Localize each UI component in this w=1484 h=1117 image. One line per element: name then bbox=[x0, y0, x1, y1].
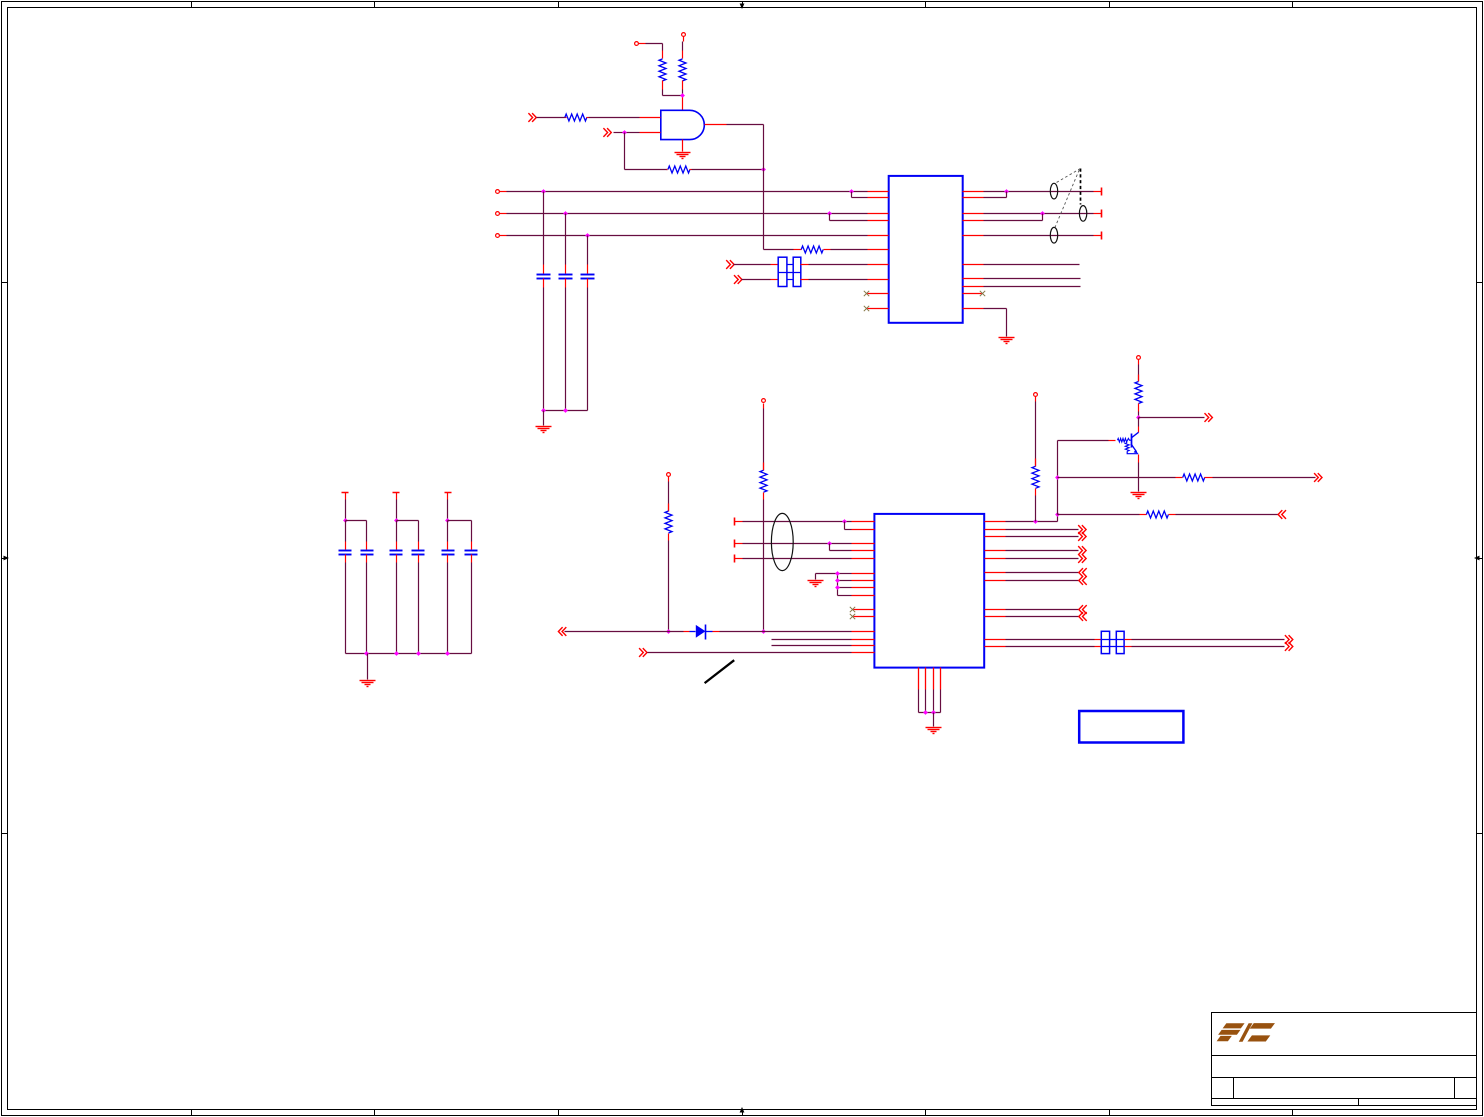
junction R1/R2 bbox=[680, 93, 685, 98]
wire 514 right bbox=[1176, 514, 1279, 516]
cap bank bus bbox=[346, 653, 472, 655]
wire JP2 right a bbox=[1125, 639, 1285, 641]
ground cap bank bbox=[360, 681, 376, 687]
U2 left pin y191.1 bbox=[868, 191, 889, 193]
wire output to R5 bbox=[764, 249, 794, 251]
wire U3 net1 bbox=[743, 521, 852, 523]
U2 left pin y197.8 bbox=[868, 197, 889, 199]
U3 bottom bus bbox=[919, 690, 941, 713]
junction net1 branch bbox=[849, 189, 854, 194]
wire U3r in y572.6 bbox=[1006, 572, 1079, 574]
wire 514 line bbox=[1058, 514, 1140, 516]
wire U3r out y529.0 bbox=[1006, 529, 1079, 531]
U2 left pin y235.2 bbox=[868, 235, 889, 237]
U3 right pin y572.6 bbox=[985, 572, 1006, 574]
wire sw net3 bbox=[984, 235, 1094, 237]
wire R3 to U1 input 1 bbox=[589, 117, 640, 119]
U3 left pin y652.8 bbox=[852, 652, 875, 654]
port circle Q1 top bbox=[1137, 356, 1141, 365]
U2 right pin y264.1 bbox=[963, 264, 984, 266]
wire input A bbox=[537, 117, 565, 119]
off-page arrow in y580.1 bbox=[1079, 576, 1087, 585]
transistor Q1 bbox=[1109, 427, 1139, 463]
switch ellipse 2 bbox=[1079, 206, 1086, 222]
off-page arrow in y616.7 bbox=[1079, 612, 1087, 621]
wire U2r free B bbox=[984, 278, 1081, 280]
wire C8 down bbox=[447, 563, 449, 654]
junction net3 cap drop bbox=[585, 233, 590, 238]
U2 left pin y279.0 bbox=[868, 279, 889, 281]
off-page arrow 477 bbox=[1314, 473, 1322, 482]
wire diode line right bbox=[720, 631, 852, 633]
off-page arrow out y529.0 bbox=[1078, 525, 1086, 534]
capacitor C4 bbox=[339, 542, 352, 563]
off-page arrow out y558.0 bbox=[1078, 554, 1086, 563]
wire to JP1 pin2 bbox=[742, 279, 779, 281]
U3 right pin y646.0 bbox=[985, 646, 1006, 648]
U2 left NC pin 10 bbox=[864, 306, 889, 311]
port circle J1 bbox=[635, 42, 646, 46]
wire stub A bbox=[772, 639, 852, 641]
U3 left NC pin b bbox=[850, 614, 875, 619]
switch ellipse 3 bbox=[1050, 227, 1057, 243]
junction gnd bus 2 bbox=[835, 578, 840, 583]
U1 output pin bbox=[705, 124, 727, 126]
U1 GND pin bbox=[682, 140, 684, 152]
U2 left NC pin 9 bbox=[864, 291, 889, 296]
U2 right pin y278.7 bbox=[963, 278, 984, 280]
resistor R3 bbox=[565, 114, 589, 121]
junction bank 4 bbox=[445, 651, 450, 656]
U3 right pin y616.7 bbox=[985, 616, 1006, 618]
U3 bottom pin x933.0 bbox=[933, 668, 935, 690]
wire bus to ground bbox=[543, 411, 545, 426]
off-page arrow net654 bbox=[639, 648, 647, 657]
wire U3r out y536.2 bbox=[1006, 536, 1079, 538]
wire input B bbox=[614, 132, 640, 134]
wire Q1 collector net upper bbox=[1138, 365, 1140, 382]
port circle V3 bbox=[1034, 393, 1038, 402]
off-page arrow collector bbox=[1205, 413, 1213, 422]
power port / wires cap group 2 bbox=[393, 493, 419, 542]
U3 right pin y609.1 bbox=[985, 609, 1006, 611]
wire emitter to ground bbox=[1138, 463, 1140, 492]
resistor R11 bbox=[1135, 375, 1142, 412]
off-page arrow out y536.2 bbox=[1078, 532, 1086, 541]
port circle J2 bbox=[682, 33, 686, 42]
note box bbox=[1079, 711, 1183, 743]
U3 right pin y639.3 bbox=[985, 639, 1006, 641]
wire J1 to R1 bbox=[646, 44, 663, 51]
U3 bottom pin x940.2 bbox=[940, 668, 942, 690]
port circle W3 bbox=[496, 234, 507, 238]
wire R4 to output node bbox=[692, 169, 764, 171]
resistor R1 bbox=[659, 51, 666, 90]
diode D1 bbox=[684, 625, 720, 640]
junction net2 cap drop bbox=[563, 211, 568, 216]
wire U3r in y616.7 bbox=[1006, 616, 1079, 618]
junction sw1 bbox=[1004, 189, 1009, 194]
port circle W2 bbox=[496, 212, 507, 216]
capacitor C5 bbox=[361, 542, 374, 563]
wire R1 bottom to junction bbox=[663, 90, 683, 96]
wire V3 lower bbox=[1035, 496, 1037, 522]
U3 left pin y550.4 bbox=[852, 550, 875, 552]
wire V2 upper bbox=[763, 409, 765, 471]
wire U2r gnd bbox=[984, 309, 1007, 337]
resistor R2 bbox=[679, 51, 686, 90]
wire cap drop 3 bbox=[587, 236, 589, 265]
wire net1 bbox=[507, 191, 868, 193]
wire pin2 up bbox=[984, 192, 1007, 198]
wire C5 down bbox=[366, 563, 368, 654]
wire cap drop 2 bbox=[565, 214, 567, 265]
ground U3 bottom bbox=[926, 728, 942, 734]
U2 left pin y249.4 bbox=[868, 249, 889, 251]
off-page arrow out y550.1 bbox=[1078, 546, 1086, 555]
jumper block JP2 bbox=[1101, 631, 1124, 653]
ground bus wires bbox=[816, 574, 852, 596]
U3 left pin y631.3 bbox=[852, 631, 875, 633]
off-page arrow JP1 a bbox=[726, 260, 734, 269]
wire U1 output down bbox=[727, 125, 764, 250]
off-page arrow in y572.6 bbox=[1079, 568, 1087, 577]
junction base net low bbox=[1055, 475, 1060, 480]
capacitor C6 bbox=[390, 542, 403, 563]
wire U3 to JP2 b bbox=[1006, 646, 1102, 648]
wire C3 to gnd bus bbox=[587, 288, 589, 411]
wire sw net1 bbox=[984, 191, 1094, 193]
wire base vertical bbox=[1058, 441, 1109, 515]
U2 right pin y308.0 bbox=[963, 308, 984, 310]
junction R8 bottom bbox=[1033, 519, 1038, 524]
wire net2 bbox=[507, 213, 868, 215]
wire V3 upper bbox=[1035, 402, 1037, 467]
wire net654 bbox=[648, 652, 852, 654]
switch ellipse 1 bbox=[1050, 183, 1057, 199]
off-page arrow input A bbox=[528, 113, 536, 122]
ground cap bus bbox=[536, 427, 552, 433]
wire J2 to R2 bbox=[682, 42, 684, 51]
off-page arrow JP2 a bbox=[1285, 635, 1293, 644]
junction U3 net1 bbox=[842, 519, 847, 524]
U3 left pin y521.0 bbox=[852, 521, 875, 523]
wire C4 down bbox=[345, 563, 347, 654]
power port / wires cap group 3 bbox=[445, 493, 472, 542]
junction bus 2 bbox=[563, 408, 568, 413]
wire V1 upper bbox=[668, 482, 670, 512]
wire net1 branch to pin2 bbox=[852, 192, 868, 198]
resistor R5 bbox=[794, 246, 831, 253]
U3 left pin y543.4 bbox=[852, 543, 875, 545]
junction collector net bbox=[1136, 415, 1141, 420]
junction bottom 1 bbox=[923, 710, 928, 715]
wire R2 to gate VCC bbox=[682, 90, 684, 98]
wire bottom gnd stem bbox=[933, 713, 935, 727]
off-page arrow JP2 b bbox=[1285, 642, 1293, 651]
U3 left pin y595.2 bbox=[852, 595, 875, 597]
wire to JP1 pin1 bbox=[734, 264, 779, 266]
U3 left pin y580.3 bbox=[852, 580, 875, 582]
U3 right pin y558.0 bbox=[985, 558, 1006, 560]
U3 left pin y639.2 bbox=[852, 639, 875, 641]
junction base net mid bbox=[1055, 512, 1060, 517]
wire feedback down bbox=[625, 133, 668, 170]
wire net3 bbox=[507, 235, 868, 237]
U2 right NC pin bbox=[963, 291, 986, 296]
capacitor C7 bbox=[412, 542, 425, 563]
wire U3 to JP2 a bbox=[1006, 639, 1102, 641]
IC U1A box bbox=[889, 176, 963, 323]
wire net2 branch to pin4 bbox=[830, 214, 868, 221]
capacitor C9 bbox=[465, 542, 478, 563]
wire bank gnd stem bbox=[367, 654, 369, 680]
resistor R10 bbox=[1140, 511, 1176, 518]
junction bank 2 bbox=[394, 651, 399, 656]
port circle V1 bbox=[667, 473, 671, 482]
IC U3 box bbox=[874, 514, 984, 668]
U2 left pin y264.3 bbox=[868, 264, 889, 266]
U3 right pin y536.2 bbox=[985, 536, 1006, 538]
wire U3r out y558.0 bbox=[1006, 558, 1079, 560]
resistor R9 bbox=[1176, 474, 1213, 481]
U2 right pin y213.4 bbox=[963, 213, 984, 215]
U3 left pin y645.9 bbox=[852, 645, 875, 647]
capacitor C1 bbox=[537, 265, 551, 288]
power port / wires cap group 1 bbox=[342, 493, 367, 542]
FIC logo bbox=[1217, 1023, 1275, 1042]
junction V2 diode line bbox=[761, 629, 766, 634]
U3 right pin y580.1 bbox=[985, 580, 1006, 582]
off-page arrow in y609.1 bbox=[1079, 605, 1087, 614]
wire R5 to U2 pin6 bbox=[831, 249, 868, 251]
wire sw net2 bbox=[984, 213, 1094, 215]
capacitor C3 bbox=[581, 265, 595, 288]
wire V1 lower bbox=[668, 541, 670, 632]
U2 right pin y286.2 bbox=[963, 286, 984, 288]
U3 left pin y529.0 bbox=[852, 529, 875, 531]
switch dashed link 1 bbox=[1055, 169, 1080, 184]
wire collector branch right bbox=[1139, 417, 1205, 419]
ground Q1 bbox=[1131, 493, 1147, 499]
junction sw2 bbox=[1040, 211, 1045, 216]
U3 right pin y521.0 bbox=[985, 521, 1006, 523]
cable ellipse bbox=[771, 513, 793, 570]
junction V1 diode line bbox=[666, 629, 671, 634]
U3 left pin y573.2 bbox=[852, 573, 875, 575]
ground bus symbol bbox=[808, 581, 824, 587]
wire C9 down bbox=[471, 563, 473, 654]
wire JP2 right b bbox=[1125, 646, 1285, 648]
junction bottom 2 bbox=[931, 710, 936, 715]
T port net2 bbox=[1094, 210, 1102, 218]
ground IC1 right bbox=[999, 338, 1015, 344]
junction bank 3 bbox=[416, 651, 421, 656]
U2 left pin y213.4 bbox=[868, 213, 889, 215]
U3 left pin y558.2 bbox=[852, 558, 875, 560]
U3 bottom pin x918.6 bbox=[918, 668, 920, 690]
U2 right pin y191.1 bbox=[963, 191, 984, 193]
gate U1 VCC pin bbox=[682, 98, 684, 111]
junction net1 cap drop bbox=[541, 189, 546, 194]
off-page arrow 514 bbox=[1278, 510, 1286, 519]
U3 right pin y550.1 bbox=[985, 550, 1006, 552]
junction gnd bus 3 bbox=[835, 585, 840, 590]
wire U3r in y580.1 bbox=[1006, 580, 1079, 582]
T port net1 bbox=[1094, 188, 1102, 196]
wire 477 line bbox=[1058, 477, 1176, 479]
wire junction to collector bbox=[1138, 418, 1140, 427]
wire U3 net1 branch bbox=[845, 522, 852, 530]
T port net3 bbox=[1094, 232, 1102, 240]
wire C6 down bbox=[396, 563, 398, 654]
jumper block JP1 bbox=[778, 257, 801, 286]
U3 bottom pin x925.8 bbox=[925, 668, 927, 690]
junction gnd bus 1 bbox=[835, 571, 840, 576]
wire U3 net2 branch bbox=[830, 544, 852, 551]
wire JP1 to U2 pin7 bbox=[801, 264, 868, 266]
wire C7 down bbox=[418, 563, 420, 654]
U1 input pin 2 bbox=[640, 132, 661, 134]
wire U3 net3 bbox=[743, 558, 852, 560]
U2 right pin y220.3 bbox=[963, 220, 984, 222]
T port U3 net1 bbox=[735, 518, 743, 526]
switch dashed stem bbox=[1080, 169, 1082, 205]
junction bank 1 bbox=[364, 651, 369, 656]
off-page arrow input B bbox=[603, 128, 611, 137]
port circle V2 bbox=[762, 399, 766, 409]
junction bus 1 bbox=[541, 408, 546, 413]
resistor R7 bbox=[760, 463, 767, 500]
junction feedback/output bbox=[761, 167, 766, 172]
wire diode line left bbox=[565, 631, 684, 633]
wire stub B bbox=[772, 645, 852, 647]
junction input B bbox=[622, 130, 627, 135]
resistor R4 feedback bbox=[667, 166, 692, 173]
wire JP1 to U2 pin8 bbox=[801, 279, 868, 281]
capacitor C8 bbox=[442, 542, 455, 563]
port circle W1 bbox=[496, 190, 507, 194]
T port U3 net2 bbox=[735, 540, 743, 548]
off-page arrow JP1 b bbox=[734, 275, 742, 284]
wire U3 pin1 right bbox=[1006, 515, 1058, 522]
AND gate U1 bbox=[661, 110, 705, 139]
wire 477 right bbox=[1213, 477, 1316, 479]
off-page arrow diode line bbox=[558, 627, 566, 636]
resistor R6 bbox=[665, 504, 672, 541]
wire U3r in y609.1 bbox=[1006, 609, 1079, 611]
cap ground bus bbox=[544, 410, 588, 412]
wire U3r out y550.1 bbox=[1006, 550, 1079, 552]
U2 right pin y197.8 bbox=[963, 197, 984, 199]
resistor R8 bbox=[1032, 459, 1039, 496]
wire C1 to gnd bus bbox=[543, 288, 545, 411]
ground below U1 bbox=[675, 153, 691, 159]
U3 right pin y529.0 bbox=[985, 529, 1006, 531]
U2 right pin y235.2 bbox=[963, 235, 984, 237]
wire cap drop 1 bbox=[543, 192, 545, 265]
slash mark bbox=[705, 660, 735, 683]
wire U2r free A bbox=[984, 264, 1080, 266]
U1 input pin 1 bbox=[640, 117, 661, 119]
wire U2r free C bbox=[984, 286, 1081, 288]
capacitor C2 bbox=[559, 265, 573, 288]
switch dashed link 2 bbox=[1055, 170, 1079, 227]
U3 left NC pin a bbox=[850, 607, 875, 612]
wire pin4 up bbox=[984, 214, 1043, 221]
T port U3 net3 bbox=[735, 555, 743, 563]
wire U3 net2 bbox=[743, 543, 852, 545]
U2 left pin y220.3 bbox=[868, 220, 889, 222]
wire C2 to gnd bus bbox=[565, 288, 567, 411]
title block bbox=[1212, 1013, 1477, 1106]
wire R11 to junction bbox=[1138, 412, 1140, 418]
junction U3 net2 bbox=[827, 541, 832, 546]
U3 left pin y587.4 bbox=[852, 587, 875, 589]
wire V2 lower bbox=[763, 500, 765, 632]
junction net2 branch bbox=[827, 211, 832, 216]
